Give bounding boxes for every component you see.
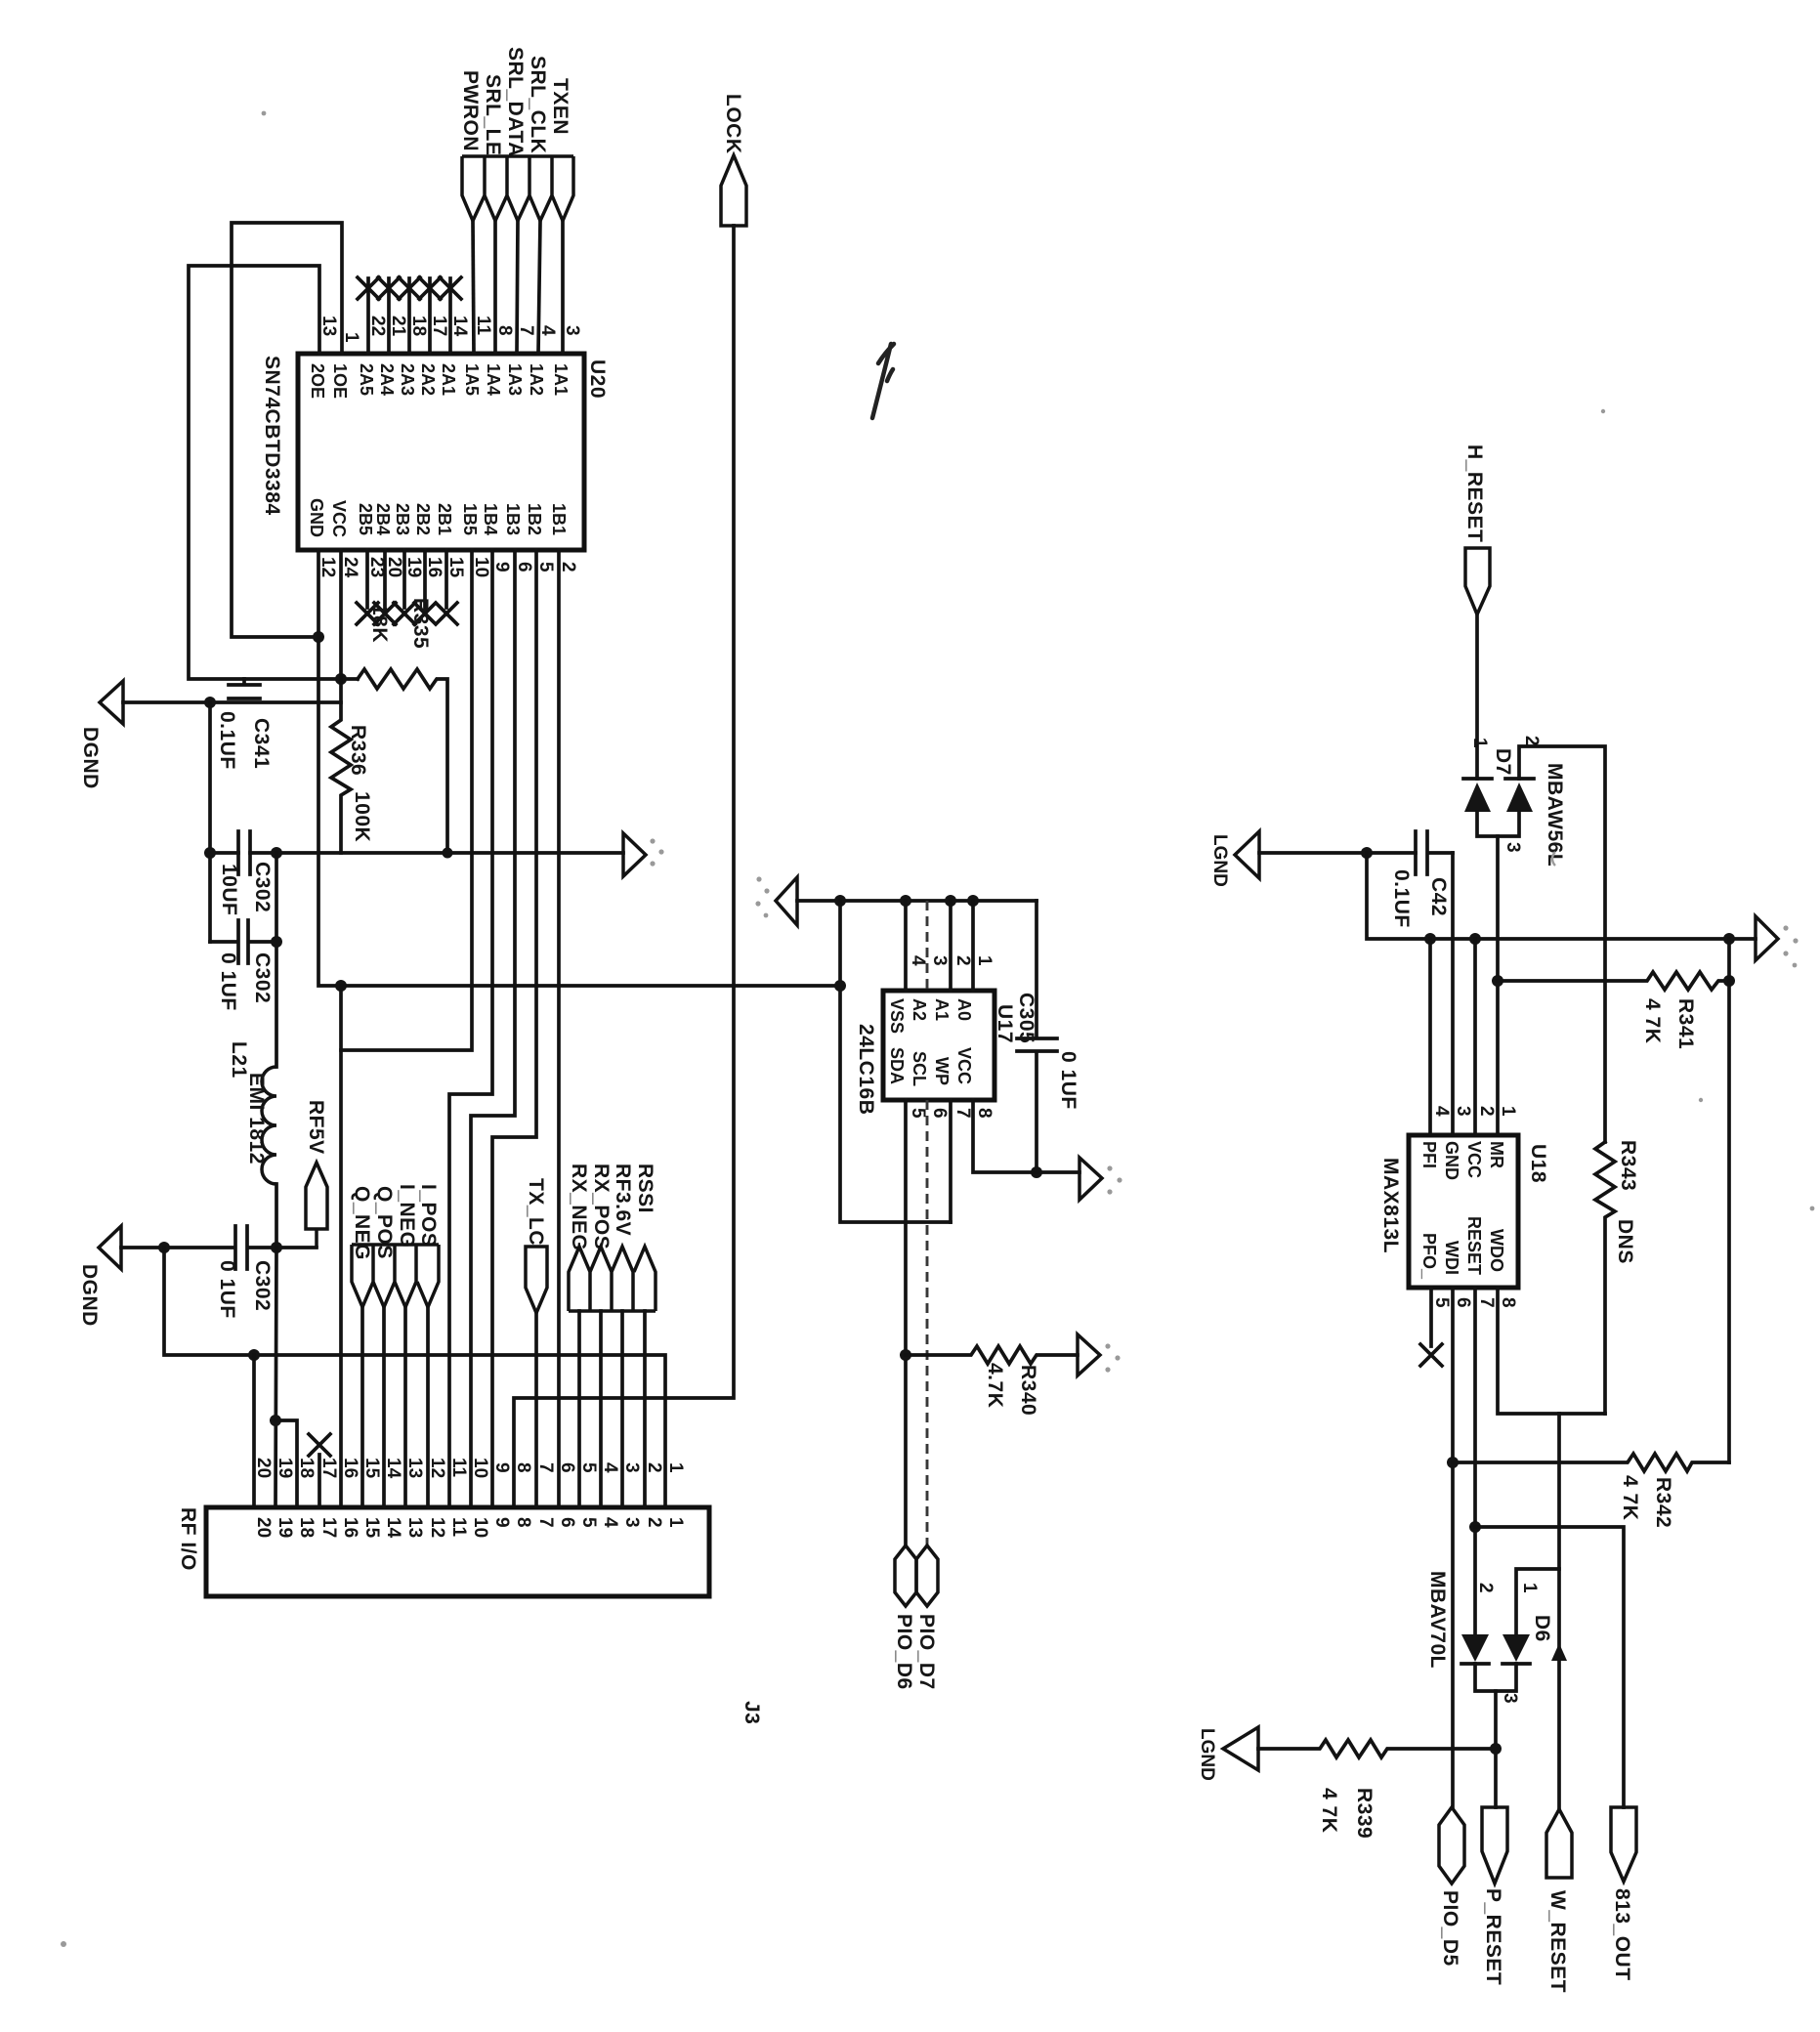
wire 1B4 to J3 pin 11 xyxy=(449,550,492,1507)
svg-text:1A4: 1A4 xyxy=(484,363,503,396)
svg-text:9: 9 xyxy=(491,562,512,572)
svg-text:D6: D6 xyxy=(1531,1615,1553,1642)
resistor R343 DNS xyxy=(1595,1142,1615,1414)
svg-text:LGND: LGND xyxy=(1209,834,1230,887)
svg-text:1: 1 xyxy=(341,332,361,343)
connector J3 body xyxy=(206,1507,709,1596)
wire J3 pin 20 xyxy=(252,1355,256,1507)
svg-text:14: 14 xyxy=(383,1458,403,1479)
svg-text:2: 2 xyxy=(1475,1583,1496,1593)
svg-text:RF3.6V: RF3.6V xyxy=(612,1164,634,1236)
svg-text:100K: 100K xyxy=(351,791,373,842)
svg-text:C305: C305 xyxy=(1015,993,1037,1043)
svg-text:PFI: PFI xyxy=(1419,1141,1439,1168)
wire WDI pin 6 down xyxy=(1451,1288,1455,1807)
svg-text:24LC16B: 24LC16B xyxy=(855,1024,877,1115)
svg-text:MAX813L: MAX813L xyxy=(1379,1158,1402,1253)
svg-text:17: 17 xyxy=(318,1517,339,1538)
svg-text:8: 8 xyxy=(513,1517,533,1528)
svg-text:10UF: 10UF xyxy=(218,864,240,915)
wire ground branch down to WP xyxy=(840,901,951,1222)
wire U17 VCC pin 8 to supply arrow xyxy=(973,1100,1079,1172)
svg-text:WP: WP xyxy=(932,1057,952,1085)
wire VSS stub xyxy=(904,901,908,991)
node 5V rail L21 branch xyxy=(271,847,282,859)
svg-text:3: 3 xyxy=(621,1462,642,1473)
wire VCC stub xyxy=(1473,939,1477,1135)
svg-text:3: 3 xyxy=(1453,1106,1473,1117)
svg-text:0 1UF: 0 1UF xyxy=(1057,1051,1079,1110)
wire 1B5 jog to GND net xyxy=(341,550,472,1050)
svg-text:DGND: DGND xyxy=(78,1264,101,1327)
svg-text:10: 10 xyxy=(471,557,491,577)
svg-text:17: 17 xyxy=(429,316,449,336)
svg-text:W_RESET: W_RESET xyxy=(1546,1890,1569,1993)
svg-text:8: 8 xyxy=(494,325,515,336)
paper specks xyxy=(262,111,267,116)
svg-text:2: 2 xyxy=(1476,1106,1497,1117)
svg-text:4: 4 xyxy=(537,325,558,336)
svg-text:0 1UF: 0 1UF xyxy=(216,1260,238,1319)
node VCC pin tie xyxy=(1469,933,1481,945)
svg-text:7: 7 xyxy=(1476,1297,1497,1308)
svg-text:6: 6 xyxy=(929,1108,950,1119)
svg-text:7: 7 xyxy=(516,325,536,336)
node SDA/R340 junction xyxy=(900,1349,911,1361)
RX flag shapes (4 pennants pointing up) xyxy=(569,1247,656,1311)
flag PIO_D6 xyxy=(895,1545,916,1606)
svg-text:1OE: 1OE xyxy=(330,363,350,399)
svg-text:R339: R339 xyxy=(1353,1788,1376,1839)
wire 2OE pin13 loop xyxy=(189,266,358,679)
IC U17 body xyxy=(883,991,995,1100)
svg-text:GND: GND xyxy=(1442,1141,1461,1180)
svg-text:A0: A0 xyxy=(954,998,974,1021)
svg-text:2A4: 2A4 xyxy=(377,363,397,396)
svg-text:2A1: 2A1 xyxy=(439,363,458,396)
wire SRL_DATA to pin 7 xyxy=(517,221,518,354)
svg-text:1B1: 1B1 xyxy=(549,503,569,535)
wire A2 stub (faded) xyxy=(926,901,929,991)
svg-text:14: 14 xyxy=(383,1517,403,1539)
svg-text:1A3: 1A3 xyxy=(505,363,525,396)
svg-text:12: 12 xyxy=(427,1458,447,1478)
svg-text:3: 3 xyxy=(562,325,582,336)
svg-text:D7: D7 xyxy=(1492,748,1514,776)
faded dots after U17 VCC arrow xyxy=(1107,1165,1112,1170)
node DGND junction xyxy=(204,697,216,708)
wire 5V rail xyxy=(210,851,623,855)
svg-text:A2: A2 xyxy=(910,998,929,1021)
svg-text:22: 22 xyxy=(367,316,388,336)
svg-text:11: 11 xyxy=(448,1517,469,1538)
diode D6 MBAV70L (dual, common cathode) xyxy=(1461,1634,1489,1662)
svg-text:8: 8 xyxy=(1498,1297,1518,1308)
svg-text:U18: U18 xyxy=(1527,1144,1549,1183)
X marks on unused A-side pins xyxy=(358,277,461,299)
svg-text:TX_LC: TX_LC xyxy=(525,1178,547,1246)
svg-text:PWRON: PWRON xyxy=(459,70,482,151)
wire L21 to RF5V node xyxy=(275,1184,278,1248)
svg-text:LGND: LGND xyxy=(1197,1728,1217,1781)
svg-text:2B4: 2B4 xyxy=(373,503,393,535)
svg-text:7: 7 xyxy=(535,1517,556,1528)
svg-text:SRL_LE: SRL_LE xyxy=(482,74,504,156)
wire LOCK to J3 pin 8 xyxy=(514,226,734,1507)
svg-text:20: 20 xyxy=(253,1517,274,1538)
capacitor C42 0.1UF xyxy=(1416,831,1453,874)
wires IQ flags to J3 pins 15,14,13,12 xyxy=(362,1307,428,1507)
svg-text:11: 11 xyxy=(473,316,493,336)
svg-text:VCC: VCC xyxy=(329,500,349,537)
svg-text:5: 5 xyxy=(1431,1297,1452,1308)
svg-text:R340: R340 xyxy=(1017,1365,1039,1416)
node ground link from U20 xyxy=(834,980,846,992)
wire L21 branch xyxy=(275,853,278,1067)
svg-text:14: 14 xyxy=(449,316,470,337)
svg-text:RESET: RESET xyxy=(1464,1216,1484,1275)
wire SDA down xyxy=(904,1100,908,1545)
svg-text:1B3: 1B3 xyxy=(503,503,523,535)
node C305/VCC junction xyxy=(1031,1166,1042,1178)
svg-text:PIO_D5: PIO_D5 xyxy=(1439,1890,1461,1967)
inductor L21 EMI 1812 xyxy=(262,1067,276,1184)
wire 1B1 to J3 pin 6 xyxy=(557,550,561,1507)
svg-text:8: 8 xyxy=(513,1462,533,1473)
svg-text:U17: U17 xyxy=(994,1004,1016,1043)
svg-text:4: 4 xyxy=(600,1517,620,1528)
svg-text:18: 18 xyxy=(408,316,429,336)
node WDI/R342 junction xyxy=(1447,1457,1459,1468)
node A0 xyxy=(967,895,979,907)
power arrow right rail xyxy=(1756,916,1778,960)
svg-text:3: 3 xyxy=(1500,1693,1520,1704)
capacitor C302 0.1UF (second) xyxy=(210,920,276,963)
wire SCL down (faded) xyxy=(926,1100,929,1545)
wire 1B3 to J3 pin 10 xyxy=(471,550,515,1507)
svg-text:1A1: 1A1 xyxy=(551,363,571,396)
svg-text:4 7K: 4 7K xyxy=(1318,1788,1340,1833)
svg-text:I_POS: I_POS xyxy=(417,1184,440,1247)
svg-text:9: 9 xyxy=(491,1462,512,1473)
svg-text:20: 20 xyxy=(253,1458,274,1478)
node PFI tie xyxy=(1424,933,1436,945)
svg-text:2: 2 xyxy=(1521,736,1542,746)
svg-text:4: 4 xyxy=(1431,1106,1452,1117)
svg-text:RX_NEG: RX_NEG xyxy=(568,1164,590,1250)
flag 813_OUT xyxy=(1611,1807,1636,1882)
wire TXEN to pin 3 xyxy=(561,221,565,354)
svg-text:R336: R336 xyxy=(347,725,369,776)
svg-text:Q_POS: Q_POS xyxy=(373,1186,396,1259)
svg-text:VSS: VSS xyxy=(887,998,907,1034)
svg-text:MBAW56L: MBAW56L xyxy=(1544,763,1566,867)
svg-text:PFO_: PFO_ xyxy=(1419,1233,1439,1280)
svg-text:8: 8 xyxy=(974,1108,995,1119)
wire W_RESET branch xyxy=(1557,1414,1561,1809)
svg-text:SCL: SCL xyxy=(910,1051,929,1086)
svg-text:C302: C302 xyxy=(251,862,274,912)
svg-text:19: 19 xyxy=(275,1458,295,1478)
svg-text:18K: 18K xyxy=(368,604,391,643)
ground arrow (left pointing) for U17 address pins xyxy=(776,877,797,925)
svg-text:10: 10 xyxy=(470,1458,490,1478)
svg-text:4: 4 xyxy=(600,1462,620,1473)
wire WDO pin 8 loop xyxy=(1498,1288,1605,1414)
svg-text:4: 4 xyxy=(908,955,928,966)
node DGND2 junction xyxy=(158,1242,170,1253)
node rail right xyxy=(1723,933,1735,945)
no-connect stubs pins 15,16,19,20,23 with X xyxy=(367,550,446,608)
svg-text:13: 13 xyxy=(318,316,339,336)
svg-text:18: 18 xyxy=(296,1458,317,1478)
node J3 pin20 junction xyxy=(248,1349,260,1361)
wire ground link to U17 area xyxy=(341,984,840,988)
svg-text:2B3: 2B3 xyxy=(393,503,412,535)
svg-text:R335: R335 xyxy=(409,598,432,649)
svg-text:7: 7 xyxy=(952,1108,973,1119)
resistor R339 4.7K xyxy=(1258,1740,1496,1757)
svg-text:MR: MR xyxy=(1487,1141,1506,1168)
ground DGND (upper) xyxy=(100,681,123,724)
svg-text:1: 1 xyxy=(1469,738,1490,748)
node VSS xyxy=(900,895,911,907)
wires RX flags to J3 pins 5,4,3,2 xyxy=(579,1311,645,1507)
svg-text:13: 13 xyxy=(404,1517,425,1538)
svg-text:R341: R341 xyxy=(1674,998,1697,1049)
svg-text:1B4: 1B4 xyxy=(481,503,500,535)
svg-text:VCC: VCC xyxy=(1464,1141,1484,1178)
node R339/P_RESET junction xyxy=(1490,1743,1502,1755)
wire right vertical to R342 xyxy=(1727,939,1731,1462)
svg-text:16: 16 xyxy=(340,1517,360,1538)
svg-text:2B1: 2B1 xyxy=(435,503,454,535)
svg-text:5: 5 xyxy=(578,1462,599,1473)
svg-text:2A5: 2A5 xyxy=(357,363,376,396)
svg-text:1B5: 1B5 xyxy=(460,503,480,535)
svg-text:PIO_D7: PIO_D7 xyxy=(915,1614,938,1690)
svg-text:7: 7 xyxy=(535,1462,556,1473)
wire 1OE pin1 loop xyxy=(232,223,342,637)
svg-text:1A2: 1A2 xyxy=(527,363,546,396)
svg-text:GND: GND xyxy=(307,498,326,537)
svg-text:P_RESET: P_RESET xyxy=(1482,1888,1504,1985)
svg-text:VCC: VCC xyxy=(954,1047,974,1084)
node 5V rail left xyxy=(204,847,216,859)
svg-text:6: 6 xyxy=(514,562,534,572)
svg-text:J3: J3 xyxy=(741,1701,763,1724)
svg-text:MBAV70L: MBAV70L xyxy=(1426,1571,1449,1669)
stub J3 pin 17 with X xyxy=(309,1434,330,1507)
wire A1 stub xyxy=(949,901,952,991)
svg-text:SRL_CLK: SRL_CLK xyxy=(527,56,549,153)
IC U20 body xyxy=(298,354,584,550)
svg-text:4 7K: 4 7K xyxy=(1619,1475,1641,1520)
svg-text:17: 17 xyxy=(318,1458,339,1478)
svg-text:6: 6 xyxy=(1453,1297,1473,1308)
wire GND pin12 down xyxy=(318,550,341,986)
svg-text:1: 1 xyxy=(1519,1583,1540,1593)
ground DGND (lower) xyxy=(99,1226,121,1269)
svg-text:RSSI: RSSI xyxy=(634,1164,656,1213)
node A1 xyxy=(945,895,956,907)
svg-text:DGND: DGND xyxy=(79,727,102,789)
wire DGND rail xyxy=(123,700,341,704)
flag PIO_D7 xyxy=(916,1545,938,1606)
svg-text:A1: A1 xyxy=(932,998,952,1021)
wire GND net down to J3 pin 16 xyxy=(339,986,343,1507)
resistor R342 4.7K xyxy=(1453,1454,1729,1471)
svg-text:EMI 1812: EMI 1812 xyxy=(245,1073,268,1164)
resistor R335 18K xyxy=(358,669,447,853)
svg-text:U20: U20 xyxy=(586,360,609,399)
no-connect stubs pins 14,17,18,21,22 xyxy=(368,278,450,354)
svg-text:5: 5 xyxy=(578,1517,599,1528)
svg-text:15: 15 xyxy=(361,1517,382,1539)
power arrow 5V off-page xyxy=(623,833,646,876)
node C302-2 junction xyxy=(271,936,282,948)
svg-text:LOCK: LOCK xyxy=(722,94,744,154)
input flag shapes (5 pennants pointing down) xyxy=(462,156,573,221)
IQ flag shapes (4 pennants pointing down) xyxy=(352,1245,439,1307)
svg-text:RF5V: RF5V xyxy=(305,1100,327,1155)
node VCC-2OE junction xyxy=(335,673,347,685)
handwritten mark "1" xyxy=(872,344,894,418)
faded dots after R340 arrow xyxy=(1105,1343,1110,1348)
power arrow R340 pull-up xyxy=(1078,1334,1100,1376)
ground triangle bottom (faded label) xyxy=(1223,1727,1258,1770)
wire D7 pin2 loop to R343 xyxy=(1519,746,1605,1142)
svg-text:16: 16 xyxy=(424,557,444,577)
svg-text:2: 2 xyxy=(644,1517,664,1528)
svg-text:3: 3 xyxy=(1503,842,1523,853)
node RESET/813_OUT junction xyxy=(1469,1521,1481,1533)
svg-text:10: 10 xyxy=(470,1517,490,1538)
svg-text:11: 11 xyxy=(448,1458,469,1478)
svg-text:H_RESET: H_RESET xyxy=(1463,444,1486,542)
svg-text:C302: C302 xyxy=(251,1260,274,1311)
svg-text:RF I/O: RF I/O xyxy=(177,1507,199,1571)
svg-text:2OE: 2OE xyxy=(308,363,327,399)
flag P_RESET xyxy=(1482,1807,1507,1884)
svg-text:0 1UF: 0 1UF xyxy=(217,952,239,1011)
svg-text:PIO_D6: PIO_D6 xyxy=(893,1614,915,1690)
node C42 left junction xyxy=(1361,847,1373,859)
wire PFI stub xyxy=(1428,939,1432,1135)
ground triangle (faded label) xyxy=(1235,831,1259,878)
wire D7 anode to MR xyxy=(1496,836,1500,1135)
svg-text:1: 1 xyxy=(665,1462,686,1473)
svg-text:C42: C42 xyxy=(1427,877,1450,916)
wire SRL_CLK to pin 4 xyxy=(538,221,540,354)
svg-text:R343: R343 xyxy=(1617,1140,1639,1191)
wire U17 ground rail xyxy=(797,899,1037,903)
svg-text:5: 5 xyxy=(908,1108,928,1119)
svg-text:2B2: 2B2 xyxy=(413,503,433,535)
svg-text:WDO: WDO xyxy=(1487,1229,1506,1272)
wire triangle to C42 xyxy=(1259,851,1416,855)
wire RESET pin 7 down xyxy=(1473,1288,1477,1634)
wire to 813_OUT flag xyxy=(1475,1527,1624,1807)
svg-text:16: 16 xyxy=(340,1458,360,1478)
faded label left of U17 ground arrow xyxy=(756,876,761,881)
svg-text:TXEN: TXEN xyxy=(549,78,571,135)
node rail-branch xyxy=(834,895,846,907)
power flag RF5V xyxy=(306,1163,327,1248)
svg-text:1: 1 xyxy=(974,955,995,966)
wire DGND drop xyxy=(208,702,212,942)
resistor R336 100K xyxy=(331,550,351,853)
svg-text:12: 12 xyxy=(317,557,338,577)
svg-text:C302: C302 xyxy=(251,952,274,1003)
svg-text:1A5: 1A5 xyxy=(462,363,482,396)
flag W_RESET xyxy=(1546,1809,1572,1878)
svg-text:15: 15 xyxy=(445,557,466,578)
node MR/R341 junction xyxy=(1492,975,1503,987)
svg-text:4 7K: 4 7K xyxy=(1641,998,1664,1043)
resistor R341 4.7K xyxy=(1498,972,1729,990)
svg-text:4.7K: 4.7K xyxy=(984,1363,1006,1408)
svg-text:3: 3 xyxy=(929,955,950,966)
svg-text:6: 6 xyxy=(557,1517,577,1528)
small arrow mark on W_RESET wire xyxy=(1551,1643,1567,1661)
wire DGND2 drop to J3 ground rail xyxy=(164,1248,665,1507)
faded net label dots after 5V arrow xyxy=(650,838,655,843)
svg-text:19: 19 xyxy=(275,1517,295,1538)
svg-text:2: 2 xyxy=(558,562,578,572)
svg-text:SN74CBTD3384: SN74CBTD3384 xyxy=(261,356,283,516)
svg-text:5: 5 xyxy=(535,562,556,572)
svg-text:DNS: DNS xyxy=(1614,1219,1636,1264)
svg-text:Q_NEG: Q_NEG xyxy=(351,1186,373,1260)
IC U18 body xyxy=(1409,1135,1518,1288)
svg-text:6: 6 xyxy=(557,1462,577,1473)
svg-text:18: 18 xyxy=(296,1517,317,1538)
svg-text:19: 19 xyxy=(403,557,424,577)
svg-text:9: 9 xyxy=(491,1517,512,1528)
svg-text:21: 21 xyxy=(388,316,408,337)
wire 1B2 to J3 pin 9 xyxy=(492,550,536,1507)
wire WP pin 7 xyxy=(949,1100,952,1222)
svg-text:WDI: WDI xyxy=(1442,1241,1461,1275)
svg-text:C341: C341 xyxy=(250,718,273,769)
faded dots after right rail arrow xyxy=(1783,925,1788,930)
power arrow VCC U17 xyxy=(1079,1158,1102,1200)
svg-text:R342: R342 xyxy=(1652,1477,1674,1528)
node 1OE-GND junction xyxy=(313,631,324,643)
svg-text:13: 13 xyxy=(404,1458,425,1478)
wire C42 right down to GND pin 3 xyxy=(1451,853,1455,1135)
svg-text:RX_POS: RX_POS xyxy=(590,1164,613,1249)
svg-text:2A2: 2A2 xyxy=(418,363,438,396)
capacitor C305 0.1UF xyxy=(1017,901,1057,1172)
capacitor C341 0.1UF xyxy=(229,679,260,698)
svg-text:SRL_DATA: SRL_DATA xyxy=(504,47,527,157)
svg-text:2: 2 xyxy=(644,1462,664,1473)
wire A0 stub xyxy=(971,901,975,991)
svg-text:813_OUT: 813_OUT xyxy=(1611,1888,1633,1981)
wire H_RESET to D7 xyxy=(1475,614,1479,779)
wire RF5V net to J3 pin 19 xyxy=(275,1248,276,1507)
svg-text:1: 1 xyxy=(1498,1106,1518,1117)
wire VCC rail right section xyxy=(1367,853,1756,939)
svg-text:I_NEG: I_NEG xyxy=(396,1184,418,1249)
capacitor C302 10UF xyxy=(238,831,250,874)
svg-text:24: 24 xyxy=(340,557,360,578)
node R341 right junction xyxy=(1723,975,1735,987)
node pin18 branch xyxy=(270,1415,281,1426)
svg-text:1: 1 xyxy=(665,1517,686,1528)
